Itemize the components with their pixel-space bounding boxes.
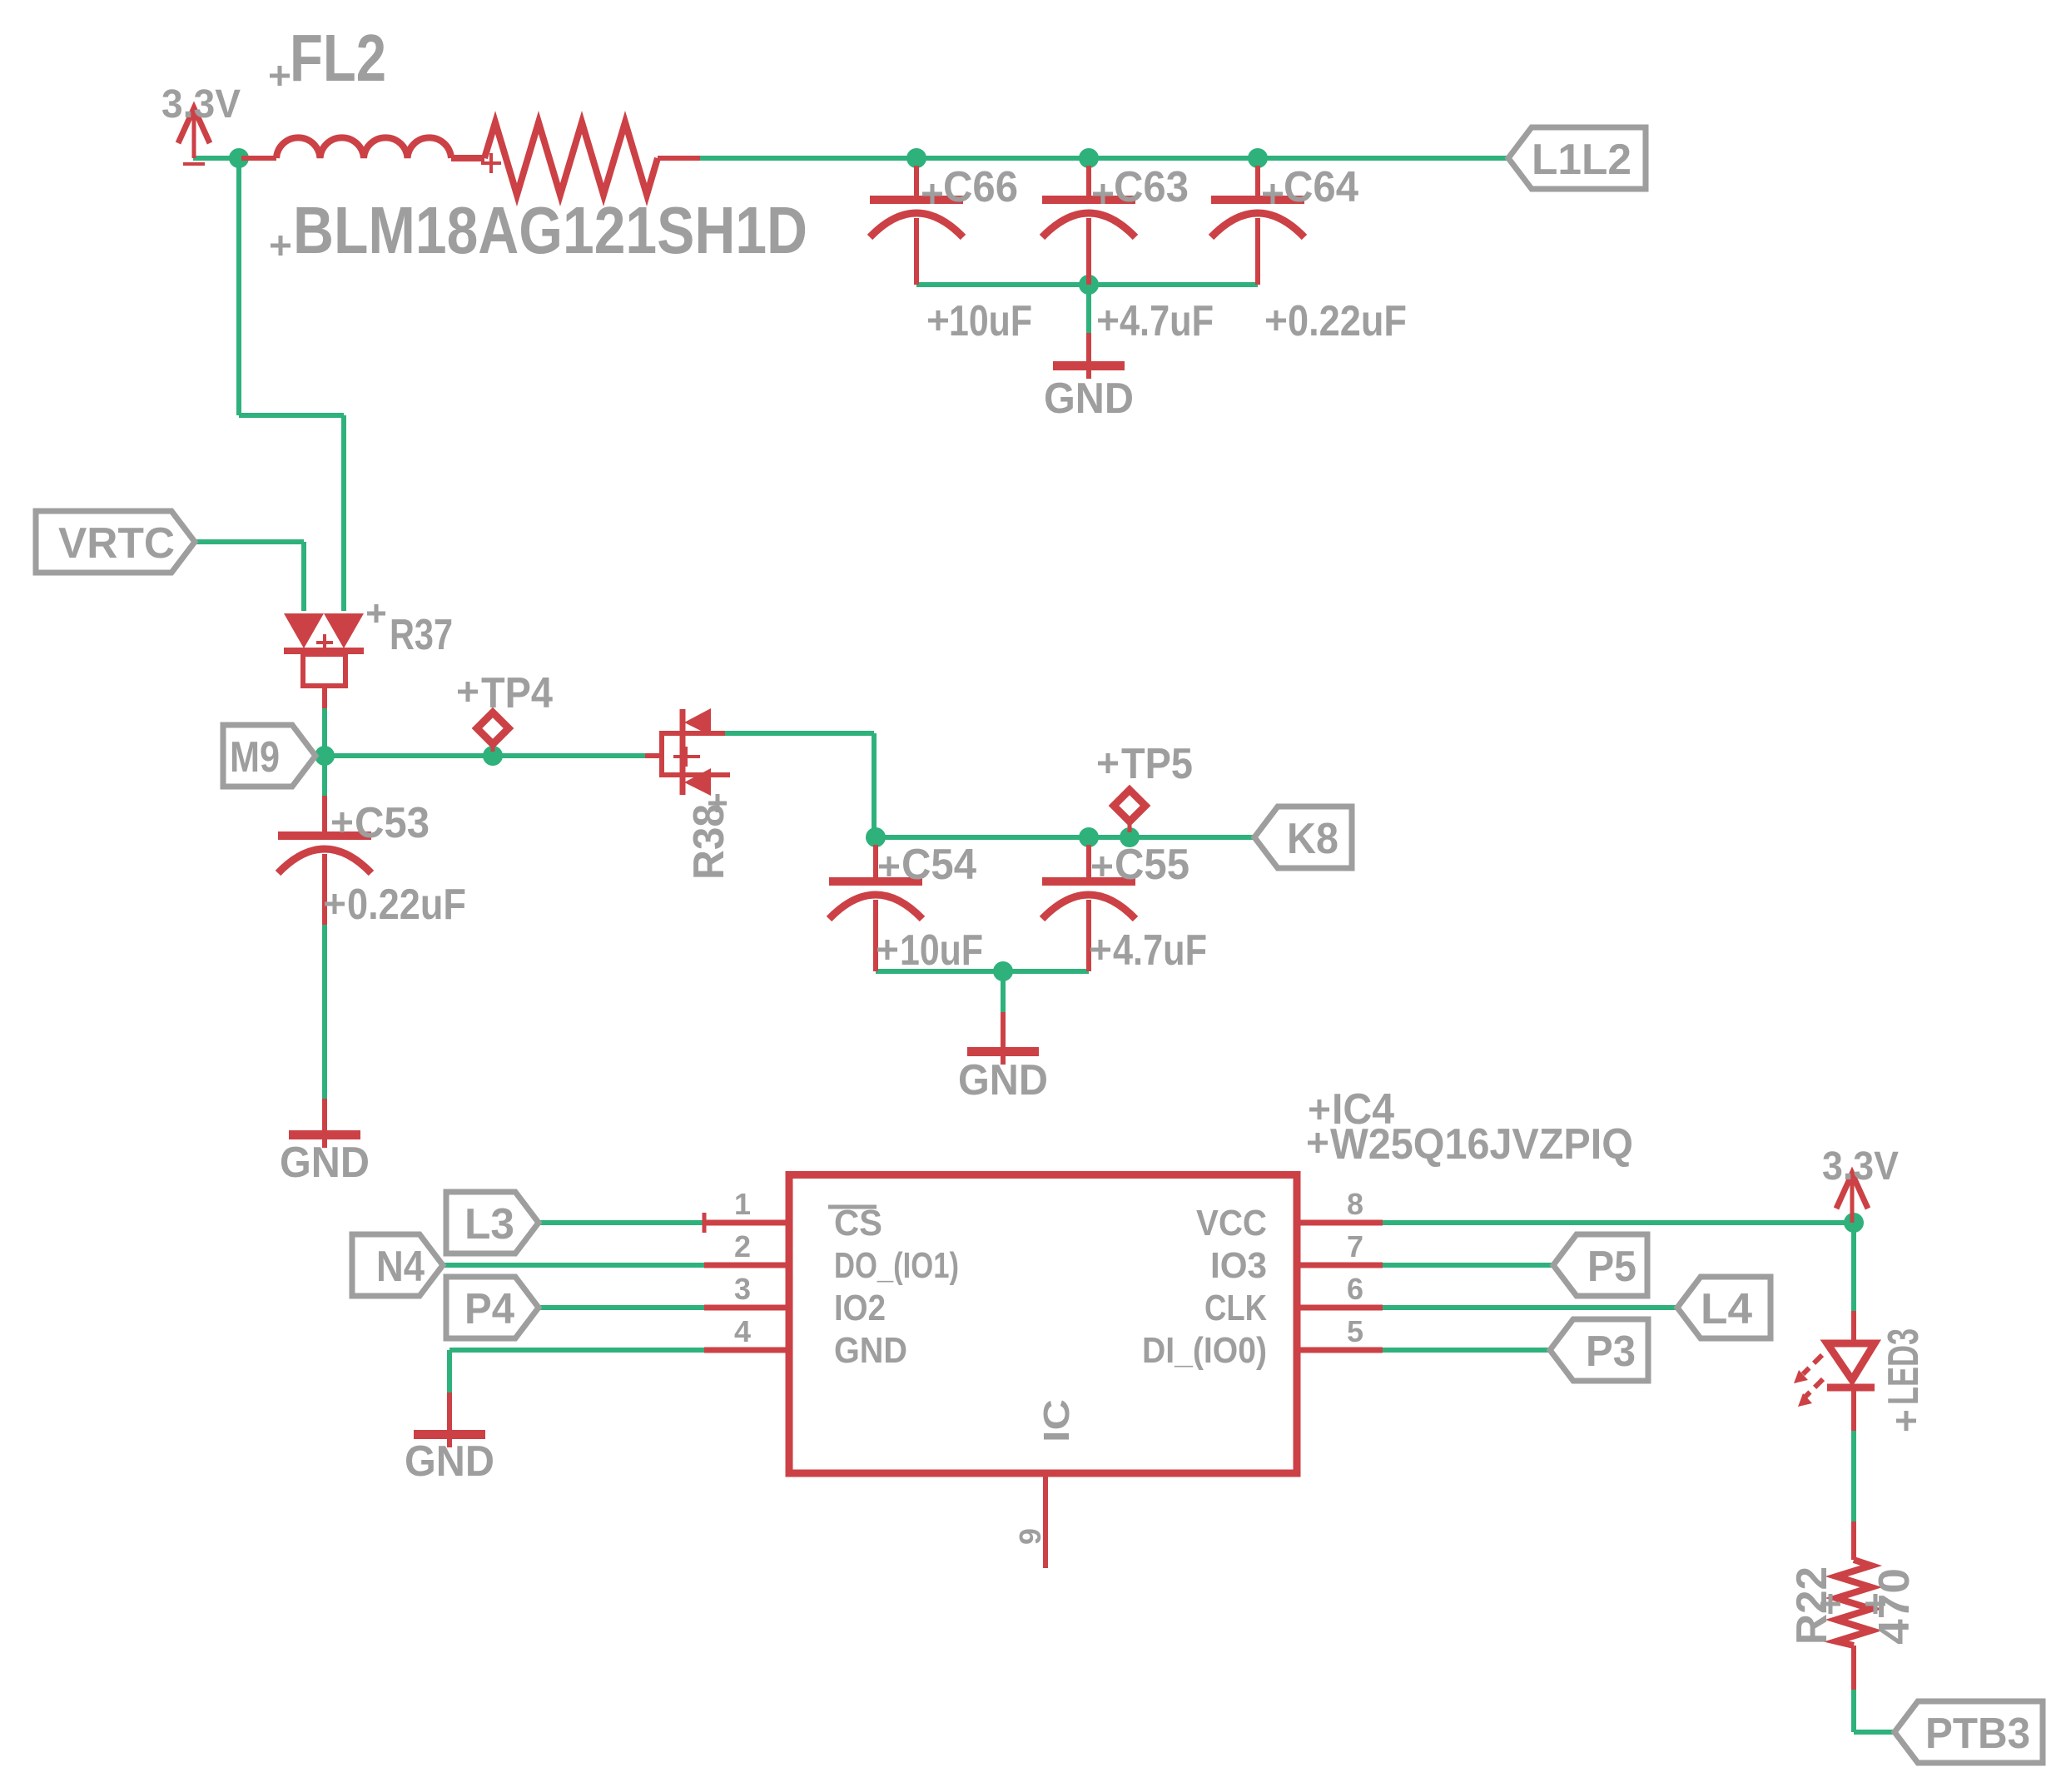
svg-text:0.22uF: 0.22uF <box>347 881 466 929</box>
flag P4 <box>446 1277 539 1338</box>
wire down to R37 right pin <box>341 415 346 611</box>
resistor R22 470 <box>1788 1521 1919 1690</box>
diode pair R37 <box>284 604 453 708</box>
svg-text:P4: P4 <box>464 1285 514 1333</box>
flag N4 <box>352 1234 443 1296</box>
flag L4 <box>1677 1277 1771 1338</box>
svg-text:C64: C64 <box>1284 163 1358 211</box>
svg-text:C53: C53 <box>355 799 430 847</box>
svg-text:GND: GND <box>834 1330 907 1371</box>
ground GND B <box>280 1099 370 1187</box>
wire M9 node to R38 <box>315 753 645 758</box>
svg-text:CLK: CLK <box>1204 1288 1267 1328</box>
supply 3.3V right <box>1822 1144 1899 1223</box>
svg-text:P3: P3 <box>1586 1328 1636 1376</box>
inductor-resistor FL2 (ferrite bead) <box>241 21 807 267</box>
svg-text:470: 470 <box>1870 1568 1919 1645</box>
svg-text:GND: GND <box>1044 375 1134 423</box>
wire jog right <box>239 413 344 418</box>
node junction M9 <box>315 746 335 766</box>
svg-text:6: 6 <box>1347 1272 1363 1306</box>
node junction GND rail C <box>993 961 1013 981</box>
svg-text:IO3: IO3 <box>1210 1245 1267 1286</box>
svg-text:TP5: TP5 <box>1121 740 1193 788</box>
node junction TP4 <box>483 746 503 766</box>
svg-text:P5: P5 <box>1587 1243 1636 1291</box>
svg-text:10uF: 10uF <box>949 297 1032 345</box>
pin 7 stub <box>1297 1263 1383 1268</box>
flag P3 <box>1550 1319 1648 1381</box>
svg-text:1: 1 <box>734 1187 751 1221</box>
svg-text:K8: K8 <box>1287 815 1338 863</box>
node junction C64 <box>1248 148 1268 168</box>
svg-text:0.22uF: 0.22uF <box>1288 297 1407 345</box>
flag K8 <box>1254 807 1352 868</box>
svg-text:2: 2 <box>734 1229 751 1263</box>
svg-text:C66: C66 <box>943 163 1018 211</box>
flag L1L2 <box>1508 127 1646 189</box>
svg-text:3.3V: 3.3V <box>161 82 241 127</box>
SECTION: junctions <box>229 148 1864 1233</box>
pin 8 stub <box>1297 1220 1383 1226</box>
node junction C55 <box>1079 827 1099 847</box>
pin 1 stub <box>704 1220 789 1226</box>
wire node to LED3 <box>1851 1223 1856 1311</box>
ground GND A <box>1044 333 1134 423</box>
svg-text:7: 7 <box>1347 1229 1363 1263</box>
wire junction down <box>236 158 241 415</box>
svg-text:R22: R22 <box>1788 1566 1836 1645</box>
svg-text:C54: C54 <box>901 841 976 889</box>
svg-text:IO2: IO2 <box>834 1288 886 1328</box>
svg-text:4.7uF: 4.7uF <box>1113 926 1207 975</box>
wire R37 out to M9 node <box>322 708 327 756</box>
svg-text:4: 4 <box>734 1314 751 1348</box>
svg-text:GND: GND <box>280 1139 370 1187</box>
node junction TP5 <box>1120 827 1140 847</box>
wire GND stem A <box>1086 285 1091 333</box>
svg-text:N4: N4 <box>376 1243 425 1291</box>
ground GND C <box>958 1012 1048 1104</box>
svg-text:LED3: LED3 <box>1880 1328 1928 1405</box>
svg-text:FL2: FL2 <box>290 21 386 95</box>
capacitor C55 <box>1042 841 1207 975</box>
test point TP5 <box>1098 740 1193 832</box>
wire bottom rail C54 C55 <box>876 969 1089 974</box>
flag VRTC <box>36 511 195 573</box>
svg-text:4.7uF: 4.7uF <box>1120 297 1214 345</box>
wire down to R37 left pin <box>301 542 306 611</box>
node junction C66 <box>906 148 926 168</box>
wire P4 to pin3 <box>539 1305 704 1310</box>
wire GND corner down <box>447 1350 452 1392</box>
flash IC4 W25Q16JVZPIQ <box>704 1085 1633 1568</box>
capacitor C66 <box>870 163 1032 345</box>
svg-text:3.3V: 3.3V <box>1822 1144 1899 1189</box>
svg-text:8: 8 <box>1347 1187 1363 1221</box>
wire LED3 to R22 <box>1851 1431 1856 1521</box>
wire node to C53 <box>322 756 327 796</box>
node junction C63 <box>1079 148 1099 168</box>
svg-text:C55: C55 <box>1115 841 1189 889</box>
wire VRTC to corner <box>195 539 304 544</box>
wire R38 out <box>725 731 874 736</box>
wire pin7 to P5 <box>1383 1263 1553 1268</box>
wire rail to K8 <box>874 835 1254 840</box>
node junction C54 <box>866 827 886 847</box>
node junction 3.3V right <box>1844 1213 1864 1233</box>
svg-text:PTB3: PTB3 <box>1925 1710 2030 1758</box>
wire C53 to GND <box>322 925 327 1099</box>
svg-text:9: 9 <box>1013 1528 1047 1545</box>
wire GND stem C <box>1001 971 1006 1012</box>
test point TP4 <box>458 669 553 752</box>
wire N4 to pin2 <box>443 1263 704 1268</box>
flag P5 <box>1553 1234 1647 1296</box>
svg-text:3: 3 <box>734 1272 751 1306</box>
wire top rail FL2 to L1L2 <box>699 156 1508 161</box>
wire L3 to pin1 <box>539 1220 704 1225</box>
SECTION: wires <box>193 158 1895 1732</box>
svg-text:R37: R37 <box>390 611 453 659</box>
supply 3.3V left <box>161 82 241 164</box>
pin 9 stub <box>1043 1473 1048 1568</box>
svg-text:TP4: TP4 <box>481 669 553 717</box>
capacitor C54 <box>829 841 983 975</box>
svg-text:C63: C63 <box>1114 163 1189 211</box>
svg-text:VCC: VCC <box>1196 1203 1267 1243</box>
LED LED3 <box>1794 1311 1928 1431</box>
wire 3.3V to junction <box>193 156 239 161</box>
pin 5 stub <box>1297 1348 1383 1353</box>
svg-text:L4: L4 <box>1701 1285 1752 1333</box>
node junction GND rail A <box>1079 275 1099 295</box>
svg-text:DI_(IO0): DI_(IO0) <box>1142 1330 1267 1371</box>
svg-text:10uF: 10uF <box>900 926 983 975</box>
flag L3 <box>446 1192 539 1253</box>
svg-text:DO_(IO1): DO_(IO1) <box>834 1245 959 1286</box>
wire R22 down <box>1851 1690 1856 1732</box>
flag PTB3 <box>1895 1701 2043 1763</box>
svg-text:GND: GND <box>958 1056 1048 1104</box>
wire bottom rail cap bank <box>916 282 1258 287</box>
node junction 3.3V left <box>229 148 249 168</box>
svg-text:IC: IC <box>1036 1399 1077 1442</box>
pin 2 stub <box>704 1263 789 1268</box>
wire corner down <box>872 733 877 837</box>
wire pin8 to 3.3V node <box>1383 1220 1854 1225</box>
svg-text:BLM18AG121SH1D: BLM18AG121SH1D <box>293 193 807 267</box>
wire pin5 to P3 <box>1383 1348 1550 1353</box>
ground GND D <box>405 1392 494 1486</box>
svg-text:L1L2: L1L2 <box>1532 136 1631 184</box>
pin 3 stub <box>704 1305 789 1311</box>
label W25Q16JVZPIQ <box>1308 1133 1328 1153</box>
svg-text:M9: M9 <box>230 733 280 782</box>
pin 4 stub <box>704 1348 789 1353</box>
capacitor C53 <box>278 796 466 929</box>
diode pair R38 <box>645 708 733 880</box>
svg-text:R38: R38 <box>685 804 733 880</box>
capacitor C64 <box>1211 163 1407 345</box>
svg-text:W25Q16JVZPIQ: W25Q16JVZPIQ <box>1330 1120 1633 1169</box>
svg-text:L3: L3 <box>464 1200 514 1248</box>
flag M9 <box>223 725 315 787</box>
svg-text:GND: GND <box>405 1437 494 1486</box>
label IC4 <box>1309 1100 1329 1119</box>
pin 6 stub <box>1297 1305 1383 1311</box>
capacitor C63 <box>1042 163 1214 345</box>
svg-text:5: 5 <box>1347 1314 1363 1348</box>
wire GND to pin4 <box>449 1348 704 1353</box>
svg-text:VRTC: VRTC <box>58 519 175 568</box>
wire pin6 to L4 <box>1383 1305 1677 1310</box>
wire to PTB3 <box>1854 1730 1895 1735</box>
